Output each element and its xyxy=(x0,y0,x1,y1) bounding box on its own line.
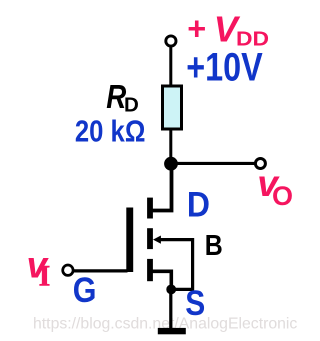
svg-text:D: D xyxy=(187,186,210,225)
svg-text:+: + xyxy=(187,10,206,46)
svg-text:G: G xyxy=(73,270,97,310)
svg-text:B: B xyxy=(205,230,223,262)
svg-text:20 kΩ: 20 kΩ xyxy=(75,114,145,149)
svg-text:+10V: +10V xyxy=(186,46,263,90)
svg-text:S: S xyxy=(185,284,205,323)
svg-text:O: O xyxy=(272,181,293,211)
svg-text:I: I xyxy=(39,259,51,292)
